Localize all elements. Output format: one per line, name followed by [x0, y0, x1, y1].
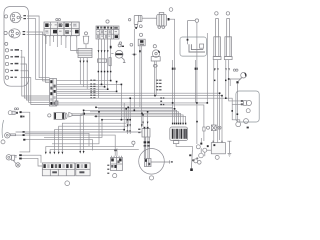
wire kill switch drop [140, 46, 142, 128]
wire coil to CDI [170, 19, 175, 122]
wire tail second [232, 103, 243, 105]
junction dots bus B [95, 107, 97, 109]
wire relay out 1 [79, 58, 81, 85]
wire code labels for B1 [23, 15, 26, 16]
wire T1a drop fuse battery [213, 60, 215, 143]
diode unit pin blob [20, 116, 22, 118]
indicator connector row 3 [5, 62, 18, 65]
wire headlamp hi beam [27, 16, 50, 78]
ignition switch IG [5, 133, 10, 138]
junction dots bus C [101, 119, 103, 121]
wire MB up 54 [54, 103, 124, 152]
main connector block MB right [76, 163, 90, 176]
wire bus B3 [98, 108, 175, 110]
wire CB2 pin 2 [101, 39, 103, 84]
flywheel magneto FM [139, 149, 165, 175]
horn label ring [118, 44, 121, 47]
resistor R1 [98, 59, 107, 62]
wire CB1 to relay [66, 36, 78, 53]
wire MB up 50 [50, 150, 139, 152]
CDI pin tips [172, 123, 173, 125]
terminal lead [188, 20, 196, 22]
front turn signal T2 body [225, 37, 232, 57]
wire sidestand link [176, 144, 192, 150]
front turn signal T1 label ring [215, 12, 218, 15]
indicator connector row 1 [5, 49, 19, 52]
wire T2a drop [225, 60, 227, 99]
rectifier wire labels [107, 165, 109, 166]
wire bus B2 [96, 107, 173, 122]
wire horn lead [111, 52, 113, 54]
ignition coil label ring [169, 8, 173, 12]
fuse F1 [211, 125, 216, 131]
wire bus A1 [57, 80, 111, 82]
headlight shell outline [4, 7, 29, 87]
magneto wire pair b [148, 137, 149, 159]
indicator connector row 2 [5, 55, 19, 58]
tail light label ring [246, 109, 250, 113]
starter relay cluster [196, 145, 200, 149]
wire MB up 45 [46, 144, 134, 152]
CDI unit CU [170, 127, 188, 141]
front turn signal T1 stem [216, 19, 219, 37]
diode block D1 [109, 58, 111, 66]
wire stub 116 [116, 82, 118, 92]
tail bulb wire arrows [241, 100, 243, 102]
front turn signal T1 body [214, 37, 221, 57]
wire CB2 pin 4 [107, 39, 109, 89]
ground strap [227, 140, 231, 142]
ignition coil U1 [157, 14, 167, 26]
wire group down G1a [127, 120, 129, 134]
throttle cable flare [69, 112, 72, 117]
front turn signal T2 label ring [226, 12, 229, 15]
wire MB riser 83 [83, 110, 85, 151]
bulb socket S1 [85, 32, 88, 35]
wire bus B6 throttle to CDI [85, 113, 181, 122]
wire bus A7 battery feed [57, 96, 223, 141]
position lamp bulb connector B2 [9, 29, 20, 38]
wire C1 right riser [129, 98, 131, 120]
junction dots group tops [127, 119, 129, 121]
wire riser 121 [120, 84, 122, 119]
wire rectifier stub b [116, 148, 118, 155]
cap label ring [128, 19, 130, 21]
drop wire labels [157, 80, 159, 81]
arrowheads CB2 verticals [98, 50, 109, 52]
wire ignition 2 [16, 134, 23, 136]
tail light box [236, 91, 259, 122]
wire T2b drop tail [229, 60, 244, 101]
connector ring left of B1 [5, 15, 8, 18]
wire brake terminal drop [196, 22, 198, 144]
connector ring right of CB2 [119, 42, 122, 45]
main block label ring [65, 181, 70, 186]
CDI feed labels [160, 97, 162, 98]
main block wire arrowheads [45, 152, 63, 155]
kill drop tick [139, 50, 141, 52]
wire coil companion drop [172, 60, 174, 107]
wire bus B4 [84, 110, 177, 122]
wire relay out 3 [86, 58, 88, 90]
wire RS1 drop [229, 79, 231, 86]
magneto wire pair a [144, 137, 145, 159]
wire lower band extra 2 [52, 112, 99, 144]
sidestand switch SS [191, 150, 192, 169]
wire headlamp lo beam [27, 19, 50, 80]
connector ring left of B2 [4, 31, 7, 34]
accessory label ring [1, 140, 5, 144]
wire bus A3 [57, 86, 105, 88]
junction dots bus A [110, 80, 112, 82]
wire bus A8 tail feed [57, 98, 240, 122]
rectifier lead tip [114, 149, 116, 151]
CDI connector block CD [48, 114, 51, 117]
flasher relay FR [78, 48, 92, 57]
wire socket S1 stub [85, 44, 87, 49]
tail light bulb [243, 101, 246, 106]
wire lower band extra 1 [25, 140, 92, 151]
wire ignition 3 rectifier [25, 135, 116, 156]
junction dots drops [172, 102, 174, 104]
magneto side lead [151, 161, 170, 163]
main connector block MB left [42, 163, 75, 176]
spark plug label ring [139, 25, 142, 28]
junction dot CB2 pin5 blob [110, 46, 112, 49]
junction dots right [228, 78, 230, 80]
wire speedo cable [154, 61, 156, 96]
wire aux right drop [206, 33, 208, 103]
wire group down G2c [147, 112, 149, 127]
front turn signal T2 stem [227, 19, 230, 37]
wire indicator row 4 [21, 71, 50, 103]
wire C1 [102, 119, 130, 121]
T1 wire arrowheads [214, 68, 219, 71]
group arrowheads [127, 122, 149, 127]
CB1 cell marks [45, 24, 76, 32]
wire bus A5 [57, 90, 117, 92]
wire R2 lower [203, 131, 205, 141]
resistor R2 [203, 127, 205, 131]
single connector ring [5, 42, 8, 45]
wire bus B5 [90, 112, 179, 123]
wire bus B8 [94, 116, 186, 122]
rear signal rings [233, 69, 235, 71]
cable end connector CE [55, 101, 58, 105]
brake light switch ring BR1 [236, 122, 241, 127]
wire rear signal feed [229, 78, 241, 79]
relay arrowheads [79, 61, 88, 63]
wire bus A2 [57, 83, 122, 85]
horn assembly HA [6, 155, 11, 160]
wire group down G1b [129, 120, 131, 134]
kill switch connector K1 [139, 33, 142, 36]
fuse label ring [207, 126, 210, 129]
ground terminal ring [16, 163, 20, 167]
wire bus A4 [57, 88, 108, 90]
rectifier RE [111, 158, 123, 171]
indicator connector row 4 [5, 69, 18, 72]
wire CB2 pin 5 [110, 39, 112, 81]
wire bus A10 [58, 105, 204, 127]
rectifier label ring [113, 174, 117, 178]
wire MB up 62 [62, 109, 126, 152]
wire indicator row 3 [21, 64, 50, 100]
wire position lamp b [27, 34, 50, 82]
junction connector JB (tall) [50, 79, 57, 107]
wire code labels for B2 [23, 31, 26, 32]
rear signal lamp RS2 [241, 72, 247, 78]
wire code labels center [90, 80, 92, 81]
wire diode unit out [20, 112, 30, 152]
wire JS drop [236, 83, 238, 122]
wire cluster stub [200, 138, 202, 143]
indicator connector row 5 [5, 76, 17, 79]
brake pedal lever [189, 44, 205, 52]
spark plug [135, 25, 138, 28]
group label dashes [127, 130, 129, 131]
wire bus A9 [58, 102, 207, 104]
magneto wire ticks [144, 141, 147, 143]
connector block CB1 right half [64, 22, 79, 36]
horn H1 [115, 50, 123, 58]
junction dots tube wires [214, 80, 216, 82]
magneto hub [144, 159, 151, 167]
connector block CB2 [96, 26, 119, 39]
wire position lamp a [27, 32, 50, 81]
wire fuse terminal lead [216, 127, 218, 129]
RS2 lead [238, 78, 242, 81]
battery BT [211, 143, 225, 154]
junction dots extra [95, 116, 97, 118]
wire bus B7 [80, 115, 183, 123]
diode unit rings [14, 108, 16, 110]
wire CB1 pin stubs [46, 36, 61, 47]
wire group down G2a [142, 115, 144, 127]
speedometer drive SP [153, 45, 156, 48]
front brake terminal ring [195, 19, 198, 22]
wire indicator row 2 [21, 57, 50, 98]
wire T1b drop [217, 60, 219, 143]
CB1 pin stubs [46, 36, 77, 38]
wire MB up 58 [59, 107, 129, 152]
wire relay out 2 [83, 58, 85, 87]
magneto label ring [149, 176, 153, 180]
HT lead wire [142, 17, 157, 19]
diode unit DU [8, 111, 12, 115]
CB2 cell number marks [97, 31, 117, 37]
wire terminal companion drop [194, 60, 196, 103]
tick marks on drops [172, 68, 174, 70]
wire C1 left riser [44, 120, 102, 138]
connector block CB1 left half [44, 22, 64, 36]
brake switch pin [187, 39, 189, 45]
connector block CB2 label ring [106, 20, 109, 23]
wire CB2 pin 1 [97, 39, 99, 98]
wire horn out 1 [22, 155, 41, 163]
fender outline lower left [2, 120, 4, 138]
junction dots row CB2 [98, 71, 100, 73]
battery label ring [215, 155, 219, 159]
junction block JS [236, 81, 238, 83]
wire MB riser 80 [79, 115, 81, 151]
wire indicator row 5 [21, 78, 50, 105]
brake light switch ring BR2 [244, 119, 249, 124]
fuse terminal ring [218, 126, 221, 129]
pickup coil PU [142, 129, 150, 138]
wire horn out 2 [22, 158, 43, 166]
wire CB2 pin 3 [104, 39, 106, 87]
wire band extra 133 [25, 133, 89, 146]
wire indicator row 1 [21, 50, 50, 96]
T2 wire arrowheads [225, 68, 230, 71]
wire bus A6 main feed [57, 93, 220, 140]
brake pedal box [180, 37, 206, 56]
sidestand connector stub [173, 140, 178, 143]
plug side ring [130, 43, 133, 46]
spark plug cap [134, 15, 142, 24]
BR2 arrow [247, 127, 249, 129]
connector block CB1 label rings [56, 19, 58, 21]
headlamp bulb connector B1 [10, 12, 21, 23]
wire ignition 1 pickup [16, 131, 142, 133]
magneto upper label ring [132, 141, 135, 144]
wire spark plug drop [133, 29, 135, 111]
